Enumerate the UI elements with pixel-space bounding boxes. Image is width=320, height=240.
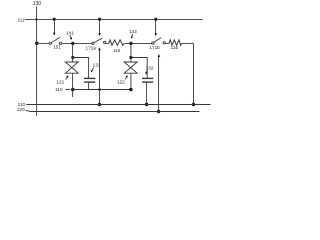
leader from label 120 to bus 120: [26, 110, 32, 111]
capacitor 132: [142, 77, 153, 79]
wire branch to capacitor 132 top: [131, 58, 147, 78]
wire switch row segment switch 171b to resistor 116: [165, 42, 169, 44]
svg-text:171b: 171b: [149, 45, 160, 50]
junction dot top bus at switch 151 control: [53, 18, 56, 21]
wire capacitor 132 bottom lead to bus 110: [146, 82, 148, 105]
svg-text:141: 141: [66, 30, 74, 35]
wire node 142 down to diode 122: [130, 43, 132, 57]
svg-text:111: 111: [18, 17, 25, 22]
resistor 115: [109, 40, 125, 45]
wire stub below node 110: [72, 90, 74, 98]
junction dot rail and switch row wire: [35, 42, 38, 45]
diode 121 bidirectional suppressor: [72, 58, 74, 63]
svg-text:130: 130: [33, 1, 42, 7]
wire switch row segment switch 151 to node 141: [62, 42, 92, 44]
svg-text:151: 151: [53, 44, 61, 49]
junction dot drop 99 on bus 110: [98, 103, 101, 106]
svg-text:110: 110: [55, 87, 63, 92]
junction dot top bus at switch 171b control: [154, 18, 157, 21]
svg-text:171a: 171a: [85, 45, 96, 50]
switch 151: [49, 42, 51, 44]
junction dot net 110 at drop 99: [98, 88, 101, 91]
svg-text:132: 132: [146, 66, 154, 71]
leader arrow from label 142 to node 142: [131, 34, 134, 37]
leader arrow from label 132 to capacitor 132: [145, 70, 148, 72]
wire switch row segment switch 171a to resistor 115: [106, 42, 109, 44]
diode 122 bidirectional suppressor: [130, 58, 132, 63]
junction dot node 142: [129, 42, 132, 45]
leader arrow from label 141 to node 141: [70, 35, 71, 38]
svg-text:115: 115: [113, 48, 121, 53]
wire node 141 down to diode 121: [72, 43, 74, 57]
wire up-arrow from bus 120 to switch 171b: [158, 56, 160, 111]
wire up-arrow from bus 110 to switch 171a: [99, 50, 101, 105]
svg-text:120: 120: [17, 107, 25, 112]
wire arrow stub from top bus to switch 171b: [155, 19, 157, 33]
leader dash from label 110 to node: [65, 89, 70, 91]
wire bus 110: [26, 104, 210, 106]
junction dot drop 159 on bus 120: [157, 110, 160, 113]
svg-text:142: 142: [129, 29, 137, 34]
wire capacitor 131 bottom lead: [88, 82, 90, 89]
wire arrow stub from top bus to switch 151: [54, 19, 56, 33]
junction dot node above diode 121: [71, 56, 74, 59]
resistor 116: [169, 40, 182, 45]
junction dot top bus at switch 171a control: [98, 18, 101, 21]
capacitor 131: [84, 77, 95, 79]
wire horizontal net 110 to right diode bottom: [73, 89, 131, 91]
svg-text:121: 121: [56, 79, 64, 84]
leader arrow from label 122 to diode 122: [125, 77, 126, 79]
junction dot node 141: [71, 42, 74, 45]
junction dot right drop on bus 110: [192, 103, 195, 106]
switch 171a: [92, 42, 94, 44]
wire arrow stub from top bus to switch 171a: [99, 19, 101, 33]
svg-text:116: 116: [171, 45, 179, 50]
junction dot capacitor 132 lead on bus 110: [145, 103, 148, 106]
switch 171b: [152, 42, 154, 44]
wire segment resistor 116 to right drop: [182, 42, 194, 44]
junction dot right diode bottom on net 110: [129, 88, 133, 92]
wire bus 120: [31, 111, 200, 113]
wire vertical line 130 rail: [36, 7, 38, 117]
junction dot rail and top bus: [35, 18, 37, 20]
wire top bus net 111 with leader: [25, 18, 203, 20]
wire right drop to bus 110: [193, 43, 195, 104]
svg-text:122: 122: [117, 80, 125, 85]
wire switch row segment resistor 115 to node 142 to switch 171b: [124, 42, 152, 44]
junction dot node above diode 122: [129, 56, 132, 59]
wire switch row segment rail to switch 151: [37, 42, 50, 44]
wire branch to capacitor 131 top: [73, 58, 89, 78]
leader arrow from label 121 to diode 121: [66, 77, 67, 79]
leader arrow from label 131 to capacitor 131: [92, 68, 94, 71]
junction dot node 110 below diode 121: [71, 88, 75, 92]
